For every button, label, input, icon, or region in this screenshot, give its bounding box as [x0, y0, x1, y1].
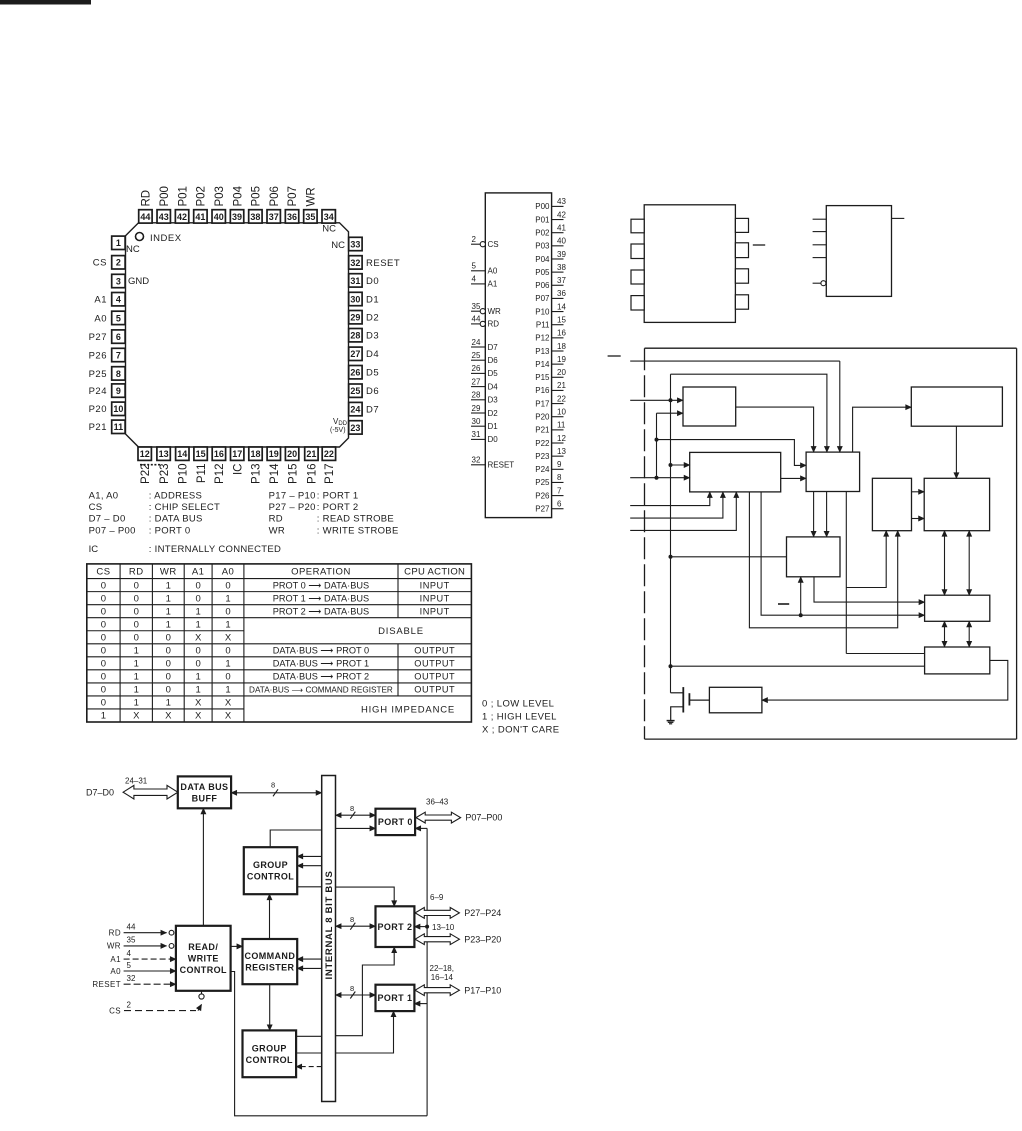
svg-text:28: 28	[472, 391, 481, 400]
svg-text:44: 44	[127, 923, 136, 932]
svg-text:4: 4	[127, 949, 132, 958]
svg-text:P16: P16	[535, 386, 550, 395]
svg-text:A1, A0: A1, A0	[89, 491, 119, 502]
svg-text:0: 0	[225, 672, 230, 683]
svg-text:A0: A0	[94, 313, 107, 324]
svg-text:43: 43	[557, 197, 566, 206]
svg-text:D7: D7	[366, 405, 379, 416]
svg-text:1: 1	[134, 698, 139, 709]
svg-text:33: 33	[350, 239, 360, 249]
svg-text:P07: P07	[535, 294, 550, 303]
svg-text:CS: CS	[89, 502, 103, 513]
svg-text:A1: A1	[192, 567, 205, 578]
svg-text:36–43: 36–43	[426, 797, 449, 806]
svg-text:8: 8	[350, 915, 354, 924]
svg-text:12: 12	[557, 434, 566, 443]
svg-text:P25: P25	[89, 369, 107, 380]
svg-text:X: X	[133, 711, 140, 722]
svg-text:INTERNAL 8 BIT BUS: INTERNAL 8 BIT BUS	[324, 870, 335, 979]
svg-text:D4: D4	[366, 349, 379, 360]
svg-text:P22: P22	[535, 439, 550, 448]
svg-text:20: 20	[287, 449, 297, 459]
svg-text:A0: A0	[110, 967, 121, 976]
svg-text:P15: P15	[287, 464, 299, 484]
svg-text:5: 5	[127, 961, 132, 970]
svg-text:INPUT: INPUT	[420, 580, 450, 590]
svg-text:P11: P11	[196, 464, 208, 484]
svg-text:P06: P06	[269, 186, 281, 206]
svg-text:1: 1	[196, 606, 201, 617]
svg-text:1: 1	[225, 659, 230, 670]
svg-text:D5: D5	[488, 369, 499, 378]
svg-text:25: 25	[350, 386, 360, 396]
svg-text:7: 7	[557, 486, 562, 495]
svg-text:WR: WR	[306, 187, 318, 206]
svg-text:15: 15	[557, 316, 566, 325]
svg-text:0: 0	[166, 646, 171, 657]
svg-text:38: 38	[557, 263, 566, 272]
svg-text:24: 24	[472, 338, 481, 347]
svg-text:1: 1	[166, 606, 171, 617]
svg-text:0 ; LOW LEVEL: 0 ; LOW LEVEL	[482, 699, 554, 710]
svg-text:P23: P23	[159, 464, 171, 484]
svg-text:1: 1	[225, 619, 230, 630]
svg-text:4: 4	[116, 295, 121, 305]
svg-text:INPUT: INPUT	[420, 593, 450, 603]
svg-text:1: 1	[134, 659, 139, 670]
svg-text:1: 1	[134, 672, 139, 683]
svg-text:P25: P25	[535, 478, 550, 487]
svg-text:P01: P01	[535, 215, 550, 224]
svg-text:21: 21	[306, 449, 316, 459]
svg-text:0: 0	[166, 672, 171, 683]
svg-text:: ADDRESS: : ADDRESS	[149, 491, 202, 502]
svg-text:P17–P10: P17–P10	[464, 986, 501, 996]
svg-text:BUFF: BUFF	[192, 793, 218, 803]
svg-text:: PORT 2: : PORT 2	[317, 502, 359, 513]
svg-text:6: 6	[116, 332, 121, 342]
svg-text:RD: RD	[141, 190, 153, 207]
svg-text:D1: D1	[488, 422, 499, 431]
svg-text:P22: P22	[140, 464, 152, 484]
svg-text:3: 3	[116, 276, 121, 286]
svg-text:31: 31	[472, 430, 481, 439]
svg-text:REGISTER: REGISTER	[245, 963, 294, 973]
svg-text:42: 42	[177, 212, 187, 222]
svg-text:0: 0	[225, 580, 230, 591]
svg-text:18: 18	[557, 342, 566, 351]
svg-text:P07: P07	[287, 186, 299, 206]
svg-text:P10: P10	[178, 464, 190, 484]
svg-text:PROT 0 ⟶ DATA·BUS: PROT 0 ⟶ DATA·BUS	[273, 580, 369, 590]
svg-text:16–14: 16–14	[431, 973, 454, 982]
svg-text:7: 7	[116, 350, 121, 360]
svg-text:: DATA BUS: : DATA BUS	[149, 514, 203, 525]
svg-text:0: 0	[225, 606, 230, 617]
svg-text:WR: WR	[160, 567, 177, 578]
svg-text:NC: NC	[331, 240, 345, 251]
svg-text:44: 44	[472, 315, 481, 324]
svg-text:X: X	[225, 632, 232, 643]
svg-text:X: X	[225, 711, 232, 722]
svg-text:D3: D3	[488, 396, 499, 405]
svg-text:5: 5	[472, 262, 477, 271]
svg-text:32: 32	[472, 456, 481, 465]
svg-text:WR: WR	[107, 942, 121, 951]
svg-text:IC: IC	[232, 464, 244, 476]
svg-text:0: 0	[225, 646, 230, 657]
svg-text:2: 2	[127, 1000, 132, 1009]
svg-text:16: 16	[214, 449, 224, 459]
svg-text:A0: A0	[488, 267, 498, 276]
svg-text:2: 2	[116, 258, 121, 268]
svg-text:P12: P12	[214, 464, 226, 484]
svg-text:19: 19	[269, 449, 279, 459]
svg-text:0: 0	[101, 606, 106, 617]
svg-text:D3: D3	[366, 331, 379, 342]
svg-text:CONTROL: CONTROL	[180, 965, 227, 975]
svg-text:X: X	[195, 632, 202, 643]
svg-text:P07 – P00: P07 – P00	[89, 525, 136, 536]
svg-text:OUTPUT: OUTPUT	[414, 672, 455, 682]
svg-text:X: X	[225, 698, 232, 709]
svg-text:22: 22	[557, 394, 566, 403]
svg-text:31: 31	[350, 276, 360, 286]
svg-text:P05: P05	[251, 186, 263, 206]
svg-text:PORT 0: PORT 0	[378, 817, 413, 827]
svg-text:0: 0	[101, 646, 106, 657]
svg-text:35: 35	[127, 936, 136, 945]
svg-text:35: 35	[305, 212, 315, 222]
svg-text:16: 16	[557, 329, 566, 338]
svg-text:CS: CS	[93, 258, 107, 269]
svg-text:P23–P20: P23–P20	[464, 935, 501, 945]
svg-text:35: 35	[472, 302, 481, 311]
svg-text:1: 1	[166, 619, 171, 630]
svg-text:32: 32	[350, 258, 360, 268]
svg-text:0: 0	[196, 580, 201, 591]
svg-text:15: 15	[196, 449, 206, 459]
svg-text:RD: RD	[109, 929, 121, 938]
svg-text:44: 44	[140, 212, 150, 222]
svg-text:P02: P02	[535, 228, 550, 237]
svg-text:42: 42	[557, 210, 566, 219]
svg-text:INPUT: INPUT	[420, 606, 450, 616]
svg-text:P14: P14	[535, 360, 550, 369]
svg-text:43: 43	[159, 212, 169, 222]
svg-text:14: 14	[177, 449, 187, 459]
svg-text:9: 9	[116, 386, 121, 396]
svg-text:30: 30	[350, 294, 360, 304]
svg-text:HIGH IMPEDANCE: HIGH IMPEDANCE	[361, 704, 455, 715]
svg-text:WRITE: WRITE	[188, 954, 219, 964]
svg-text:10: 10	[113, 404, 123, 414]
svg-text:1: 1	[166, 580, 171, 591]
svg-text:D2: D2	[366, 313, 379, 324]
svg-text:D0: D0	[488, 435, 499, 444]
svg-text:36: 36	[557, 289, 566, 298]
svg-text:P23: P23	[535, 452, 550, 461]
svg-text:P11: P11	[536, 321, 550, 330]
svg-text:P16: P16	[307, 464, 319, 484]
svg-text:11: 11	[557, 421, 566, 430]
svg-text:P27 – P20: P27 – P20	[269, 502, 316, 513]
svg-text:D2: D2	[488, 409, 499, 418]
svg-text:D6: D6	[366, 386, 379, 397]
svg-text:D1: D1	[366, 294, 379, 305]
svg-text:13: 13	[159, 449, 169, 459]
svg-text:1: 1	[196, 672, 201, 683]
svg-text:CPU ACTION: CPU ACTION	[404, 567, 465, 578]
svg-text:READ/: READ/	[188, 942, 218, 952]
svg-text:24: 24	[350, 405, 360, 415]
svg-text:P21: P21	[89, 422, 107, 433]
svg-text:GROUP: GROUP	[253, 860, 288, 870]
svg-text:D7: D7	[488, 343, 499, 352]
svg-text:P24: P24	[535, 465, 550, 474]
svg-text:CS: CS	[96, 567, 110, 578]
svg-text:32: 32	[127, 974, 136, 983]
svg-text:1 ; HIGH LEVEL: 1 ; HIGH LEVEL	[482, 712, 557, 723]
svg-text:P17 – P10: P17 – P10	[269, 491, 316, 502]
svg-text:P10: P10	[535, 307, 550, 316]
svg-text:DATA·BUS ⟶ PROT 2: DATA·BUS ⟶ PROT 2	[273, 672, 369, 682]
svg-text:P27: P27	[89, 332, 107, 343]
svg-text:P12: P12	[535, 334, 550, 343]
svg-text:11: 11	[114, 422, 124, 432]
svg-text:1: 1	[225, 593, 230, 604]
svg-text:1: 1	[225, 685, 230, 696]
svg-text:0: 0	[101, 698, 106, 709]
svg-text:8: 8	[557, 473, 562, 482]
svg-text:X ; DON'T CARE: X ; DON'T CARE	[482, 725, 559, 736]
svg-text:1: 1	[166, 593, 171, 604]
svg-text:P26: P26	[89, 350, 107, 361]
svg-text:PORT 2: PORT 2	[377, 922, 412, 932]
svg-text:0: 0	[101, 685, 106, 696]
svg-text:34: 34	[324, 212, 334, 222]
svg-text:OUTPUT: OUTPUT	[414, 685, 455, 695]
svg-text:P06: P06	[535, 281, 550, 290]
svg-text:D6: D6	[488, 356, 499, 365]
svg-text:: PORT 1: : PORT 1	[317, 491, 359, 502]
svg-text:A0: A0	[222, 567, 235, 578]
svg-text:WR: WR	[269, 525, 285, 536]
svg-text:30: 30	[472, 417, 481, 426]
svg-text:1: 1	[116, 238, 121, 248]
svg-text:14: 14	[557, 302, 566, 311]
svg-text:39: 39	[557, 250, 566, 259]
svg-text:A1: A1	[488, 280, 498, 289]
svg-text:26: 26	[350, 368, 360, 378]
svg-text:P21: P21	[535, 426, 550, 435]
svg-text:DATA·BUS ⟶ COMMAND REGISTER: DATA·BUS ⟶ COMMAND REGISTER	[249, 686, 393, 695]
svg-text:40: 40	[557, 237, 566, 246]
svg-text:P13: P13	[535, 347, 550, 356]
svg-text:: WRITE STROBE: : WRITE STROBE	[317, 525, 399, 536]
svg-text:29: 29	[350, 313, 360, 323]
svg-text:0: 0	[196, 646, 201, 657]
svg-text:0: 0	[166, 685, 171, 696]
svg-text:0: 0	[166, 632, 171, 643]
svg-text:19: 19	[557, 355, 566, 364]
svg-text:A1: A1	[110, 955, 121, 964]
svg-text:0: 0	[134, 632, 139, 643]
svg-text:X: X	[165, 711, 172, 722]
svg-text:24–31: 24–31	[125, 777, 148, 786]
svg-text:P20: P20	[535, 413, 550, 422]
svg-text:5: 5	[116, 313, 121, 323]
svg-text:P01: P01	[177, 186, 189, 206]
svg-text:RD: RD	[129, 567, 144, 578]
svg-text:CS: CS	[109, 1006, 121, 1015]
svg-text:36: 36	[287, 212, 297, 222]
svg-text:1: 1	[134, 685, 139, 696]
svg-text:NC: NC	[126, 244, 140, 255]
svg-text:37: 37	[269, 212, 279, 222]
svg-text:0: 0	[134, 606, 139, 617]
svg-text:17: 17	[232, 449, 242, 459]
svg-text:4: 4	[472, 275, 477, 284]
svg-text:WR: WR	[488, 307, 502, 316]
svg-text:P04: P04	[232, 185, 244, 206]
svg-text:12: 12	[140, 449, 150, 459]
svg-text:0: 0	[101, 632, 106, 643]
svg-text:RESET: RESET	[488, 461, 515, 470]
svg-text:P27–P24: P27–P24	[464, 908, 501, 918]
svg-text:0: 0	[134, 593, 139, 604]
svg-text:1: 1	[134, 646, 139, 657]
svg-text:DISABLE: DISABLE	[378, 626, 424, 637]
svg-text:PORT 1: PORT 1	[377, 993, 412, 1003]
svg-text:0: 0	[134, 580, 139, 591]
svg-text:D0: D0	[366, 276, 379, 287]
svg-text:28: 28	[350, 331, 360, 341]
svg-text:CONTROL: CONTROL	[247, 872, 294, 882]
svg-text:P26: P26	[535, 491, 550, 500]
svg-text:D7–D0: D7–D0	[86, 787, 114, 797]
svg-text:29: 29	[472, 404, 481, 413]
svg-text:1: 1	[101, 711, 106, 722]
svg-text:P00: P00	[159, 186, 171, 206]
svg-text:P05: P05	[535, 268, 550, 277]
svg-text:22: 22	[324, 449, 334, 459]
svg-text:NC: NC	[322, 224, 336, 235]
svg-text:P00: P00	[535, 202, 550, 211]
svg-text:1: 1	[196, 619, 201, 630]
svg-text:P13: P13	[251, 464, 263, 484]
svg-text:GROUP: GROUP	[252, 1043, 287, 1053]
svg-text:P14: P14	[269, 463, 281, 484]
svg-text:0: 0	[101, 580, 106, 591]
svg-text:25: 25	[472, 351, 481, 360]
svg-text:(-5V): (-5V)	[330, 427, 346, 434]
svg-text:RESET: RESET	[92, 980, 121, 989]
svg-text:0: 0	[166, 659, 171, 670]
svg-text:18: 18	[250, 449, 260, 459]
svg-text:41: 41	[557, 223, 566, 232]
svg-text:OUTPUT: OUTPUT	[414, 659, 455, 669]
svg-text:P17: P17	[535, 399, 550, 408]
svg-text:6–9: 6–9	[430, 893, 444, 902]
svg-text:OPERATION: OPERATION	[291, 567, 351, 578]
svg-text:20: 20	[557, 368, 566, 377]
svg-text:41: 41	[195, 212, 205, 222]
svg-text:P17: P17	[324, 464, 336, 484]
svg-text:37: 37	[557, 276, 566, 285]
svg-text:0: 0	[101, 619, 106, 630]
svg-text:X: X	[195, 711, 202, 722]
svg-text:DATA·BUS ⟶ PROT 1: DATA·BUS ⟶ PROT 1	[273, 659, 369, 669]
svg-text:P07–P00: P07–P00	[465, 813, 502, 823]
svg-text:0: 0	[101, 593, 106, 604]
svg-text:13–10: 13–10	[432, 923, 455, 932]
svg-text:PROT 1 ⟶ DATA·BUS: PROT 1 ⟶ DATA·BUS	[273, 593, 369, 603]
svg-text:0: 0	[101, 672, 106, 683]
svg-text:27: 27	[472, 377, 481, 386]
svg-text:A1: A1	[94, 295, 107, 306]
svg-text:8: 8	[350, 984, 354, 993]
svg-text:D7 – D0: D7 – D0	[89, 514, 126, 525]
svg-text:: PORT 0: : PORT 0	[149, 525, 191, 536]
svg-text:GND: GND	[128, 276, 149, 287]
svg-text:OUTPUT: OUTPUT	[414, 646, 455, 656]
svg-text:: READ STROBE: : READ STROBE	[317, 514, 394, 525]
svg-text:: INTERNALLY CONNECTED: : INTERNALLY CONNECTED	[149, 544, 281, 555]
svg-text:COMMAND: COMMAND	[244, 951, 295, 961]
svg-text:D4: D4	[488, 382, 499, 391]
svg-text:RD: RD	[269, 514, 283, 525]
svg-text:RESET: RESET	[366, 258, 400, 269]
svg-text:39: 39	[232, 212, 242, 222]
svg-text:6: 6	[557, 500, 562, 509]
svg-text:IC: IC	[89, 544, 99, 555]
svg-text:X: X	[195, 698, 202, 709]
svg-text:P03: P03	[535, 242, 550, 251]
svg-text:P24: P24	[89, 386, 107, 397]
svg-text:RD: RD	[488, 320, 500, 329]
svg-text:: CHIP SELECT: : CHIP SELECT	[149, 502, 220, 513]
svg-text:27: 27	[350, 349, 360, 359]
svg-text:26: 26	[472, 364, 481, 373]
svg-text:1: 1	[166, 698, 171, 709]
svg-text:40: 40	[214, 212, 224, 222]
svg-text:DATA·BUS ⟶ PROT 0: DATA·BUS ⟶ PROT 0	[273, 646, 369, 656]
svg-text:0: 0	[101, 659, 106, 670]
svg-text:13: 13	[557, 447, 566, 456]
svg-text:21: 21	[557, 381, 566, 390]
svg-text:2: 2	[472, 235, 477, 244]
svg-text:P02: P02	[196, 186, 208, 206]
svg-text:CS: CS	[488, 240, 499, 249]
svg-text:8: 8	[271, 781, 275, 790]
svg-text:DATA BUS: DATA BUS	[180, 782, 228, 792]
svg-text:P15: P15	[535, 373, 550, 382]
svg-text:P27: P27	[535, 505, 550, 514]
svg-text:P04: P04	[535, 255, 550, 264]
svg-text:23: 23	[350, 423, 360, 433]
svg-text:10: 10	[557, 408, 566, 417]
svg-text:P20: P20	[89, 404, 107, 415]
svg-text:P03: P03	[214, 186, 226, 206]
svg-text:9: 9	[557, 460, 562, 469]
svg-text:D5: D5	[366, 368, 379, 379]
svg-text:8: 8	[350, 804, 354, 813]
svg-text:PROT 2 ⟶ DATA·BUS: PROT 2 ⟶ DATA·BUS	[273, 606, 369, 616]
svg-text:38: 38	[250, 212, 260, 222]
svg-text:0: 0	[196, 659, 201, 670]
svg-text:1: 1	[196, 685, 201, 696]
